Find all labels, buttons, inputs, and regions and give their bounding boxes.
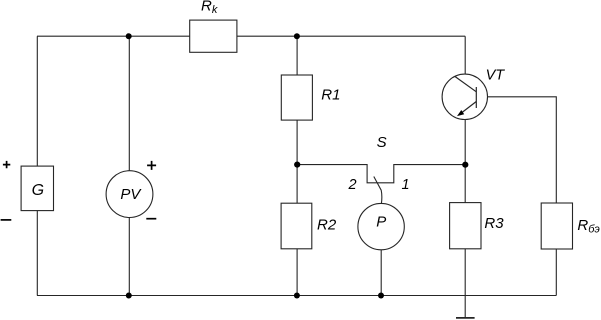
svg-text:R1: R1	[321, 87, 340, 104]
svg-text:1: 1	[402, 177, 410, 193]
svg-text:2: 2	[348, 177, 357, 193]
svg-text:R3: R3	[484, 215, 504, 232]
svg-text:G: G	[32, 182, 44, 199]
svg-text:R2: R2	[317, 216, 337, 233]
svg-text:VT: VT	[486, 67, 506, 83]
svg-text:PV: PV	[120, 186, 142, 203]
svg-text:S: S	[377, 134, 387, 151]
svg-text:P: P	[376, 214, 386, 231]
